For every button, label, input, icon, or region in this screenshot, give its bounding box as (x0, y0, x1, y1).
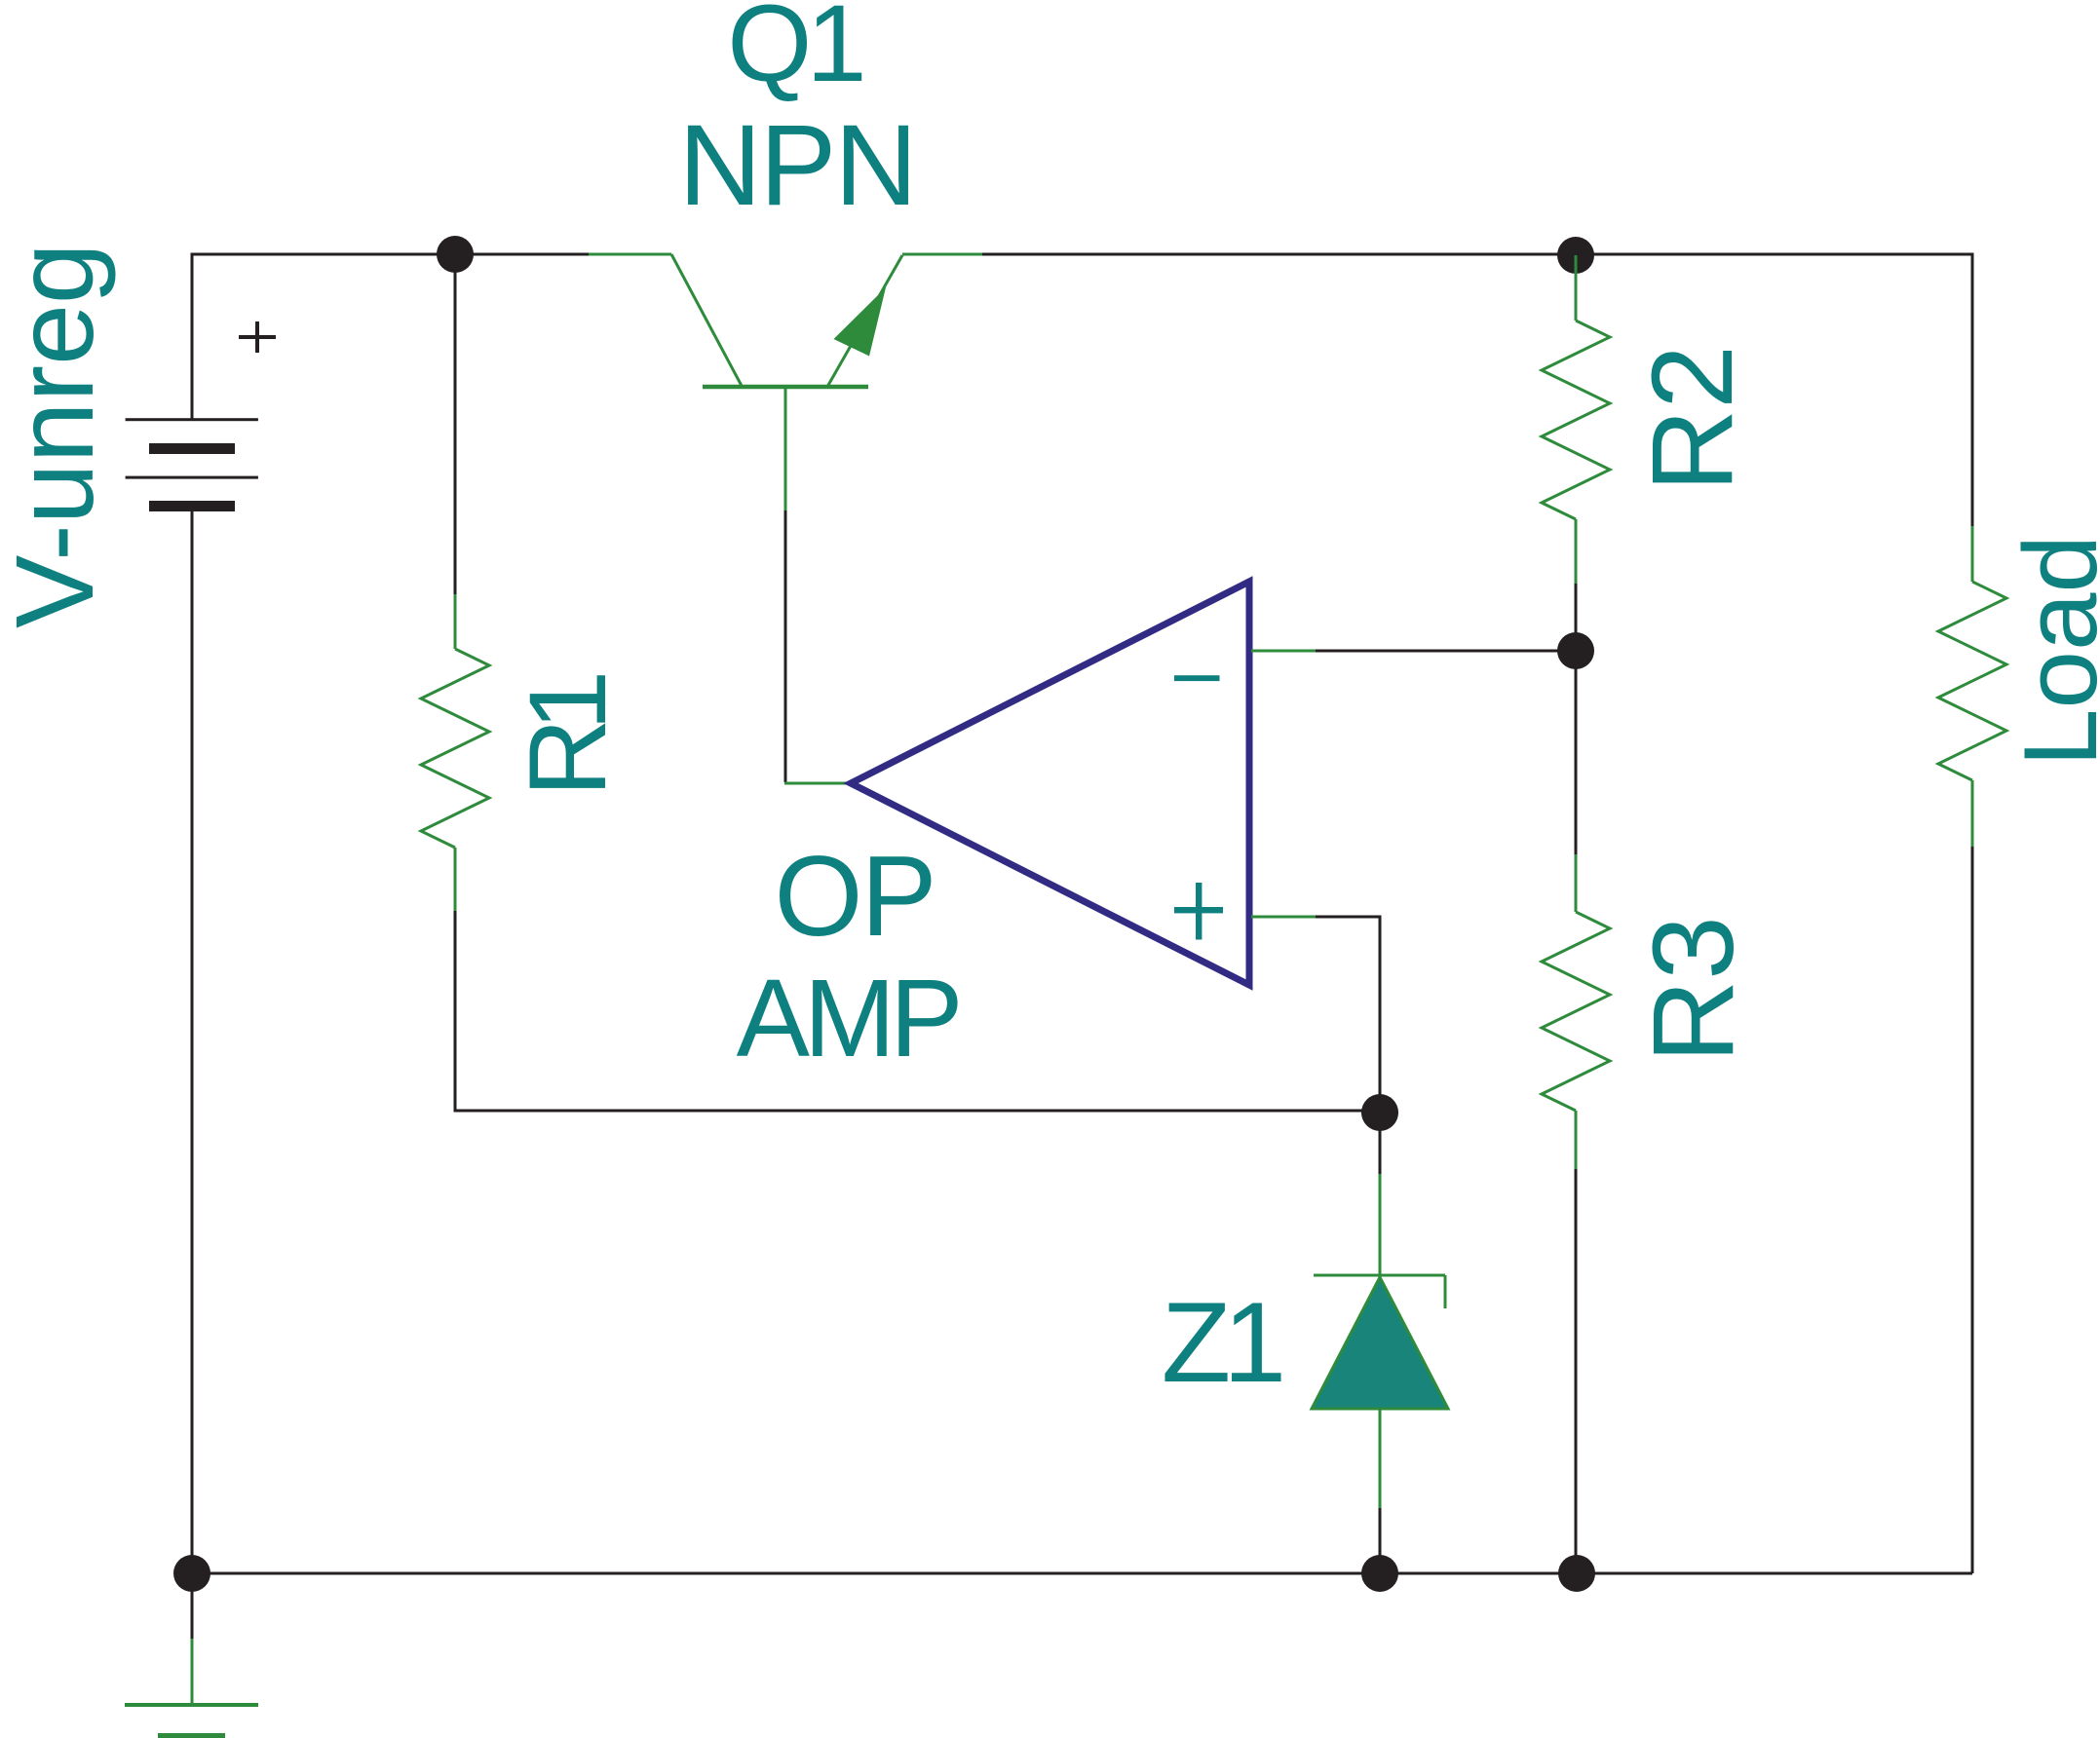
node junction zener bottom (1361, 1555, 1398, 1592)
base pin (784, 388, 787, 510)
resistor R2 (1542, 255, 1610, 651)
wire top rail right of Q1 (982, 254, 1972, 526)
zener diode Z1 (1312, 1174, 1448, 1573)
node junction ground-left (173, 1555, 210, 1592)
resistor R3 (1542, 651, 1610, 1573)
svg-text:Load: Load (2002, 535, 2100, 767)
node junction top right (R2 tap) (1557, 237, 1594, 274)
battery + sign (239, 321, 276, 353)
op-amp U1 (851, 582, 1249, 985)
wire right rail (Load branch) (1971, 847, 1974, 1573)
svg-text:AMP: AMP (737, 957, 959, 1079)
node junction R3 bottom (1558, 1555, 1595, 1592)
svg-text:Z1: Z1 (1162, 1278, 1281, 1406)
svg-text:R2: R2 (1628, 345, 1757, 492)
emitter arrow (834, 287, 887, 357)
svg-text:V-unreg: V-unreg (0, 243, 116, 628)
wire R1 bottom to plus node (455, 911, 1380, 1111)
svg-text:R3: R3 (1629, 916, 1758, 1063)
wire base to op-amp output (784, 510, 787, 782)
wire battery bottom to ground rail (191, 511, 194, 1573)
op-amp output pin (784, 782, 849, 785)
svg-text:NPN: NPN (678, 101, 915, 230)
wire ground-node to ground symbol (191, 1573, 194, 1640)
battery V-unreg (126, 418, 258, 511)
wire inverting input to R2/R3 node (1316, 650, 1576, 653)
node junction plus node (1361, 1094, 1398, 1131)
op-amp non-inverting input pin (1251, 916, 1316, 919)
wire bottom rail (192, 1572, 1972, 1575)
op-amp inverting input pin (1251, 650, 1316, 653)
transistor Q1 (589, 254, 982, 510)
wire plus node down to zener (1379, 1113, 1382, 1175)
wire R1 branch upper (454, 254, 457, 595)
node junction R2/R3 (minus node) (1557, 632, 1594, 669)
wire top-left rail (battery + to junction) (192, 254, 589, 419)
base bar (703, 385, 868, 390)
resistor Load (1938, 526, 2006, 847)
op-amp plus symbol (1174, 883, 1223, 940)
collector pin (589, 253, 671, 256)
op-amp minus symbol (1174, 675, 1220, 681)
node junction top (R1 tap) (437, 236, 474, 273)
svg-text:R1: R1 (507, 675, 629, 797)
emitter (827, 255, 902, 387)
resistor R1 (421, 594, 489, 912)
svg-text:OP: OP (774, 832, 935, 960)
svg-text:Q1: Q1 (727, 0, 861, 104)
wire non-inverting input down to plus node (1316, 917, 1380, 1113)
ground (125, 1639, 258, 1738)
